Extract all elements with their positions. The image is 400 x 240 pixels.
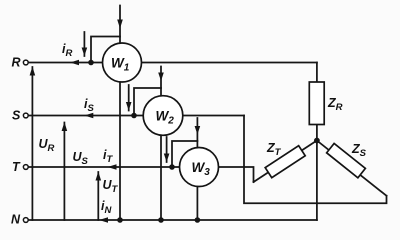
arrowhead W3 top feed [195,126,201,135]
wattmeter W2 circle [143,96,183,136]
arrowhead current arrow W2 node [126,102,132,111]
svg-text:iT: iT [103,148,113,165]
wire W3 top feed with arrow [196,118,198,141]
arrowhead i_N on N line [99,217,108,223]
wire Z_R bottom lead [316,125,318,141]
wattmeter W3 circle [180,148,219,187]
impedance Z_T body [265,146,305,178]
arrowhead current arrow W1 node [82,48,88,57]
svg-text:R: R [12,56,21,70]
wire T line [28,167,253,182]
svg-text:N: N [11,213,21,227]
node at W2 tap [131,113,137,119]
wire star diagonal to Z_S [317,141,387,196]
wire S return to Z_S [244,116,387,204]
impedance Z_S body [327,143,366,177]
svg-text:S: S [12,109,21,123]
current-coil bracket of W2 [134,88,161,116]
terminal S [23,113,28,118]
arrowhead current arrow W3 node [164,154,170,163]
impedance Z_R body [309,82,324,125]
voltage arrow line U_T [97,172,99,220]
wire N line [28,219,317,221]
voltage arrow line U_S [63,123,65,221]
arrowhead U_T up [96,172,102,181]
wire R line [28,62,317,64]
svg-text:ZT: ZT [266,141,282,158]
terminal R [23,60,28,65]
arrowhead W1 top feed [117,20,123,29]
terminal T [23,165,28,170]
arrowhead U_R up [30,67,36,76]
svg-text:ZS: ZS [351,142,367,159]
wire Z_R top lead [316,63,318,83]
wire W2 voltage lead down [160,136,162,221]
node W1 lead on N [117,217,123,223]
current-coil bracket of W1 [91,37,120,63]
svg-text:iN: iN [101,199,112,216]
wire S line [28,115,244,117]
svg-text:ZR: ZR [327,96,343,113]
wire W1 voltage lead down [119,83,121,221]
svg-text:iR: iR [62,42,72,59]
wire W1 top feed with arrow [119,6,121,37]
wire W3 voltage lead down [196,187,198,220]
svg-text:iS: iS [84,97,94,114]
current-coil bracket of W3 [172,141,197,167]
arrowhead i_T on T line [108,164,117,170]
svg-text:T: T [12,160,21,174]
svg-text:UR: UR [39,137,55,154]
node at W1 tap [88,60,94,66]
node at W3 tap [169,164,175,170]
wire W2 top feed with arrow [160,67,162,89]
arrowhead i_S on S line [84,113,93,119]
wire star to N [316,141,318,221]
node star point [314,138,320,144]
voltage arrow line U_R [31,67,33,220]
op-amp? no: wattmeter W1 circle [103,43,142,82]
wire T diagonal to star through Z_T [254,141,317,183]
current direction arrow line at node of W3 [166,137,168,162]
current direction arrow line at node of W2 [128,85,130,111]
current direction arrow line at node of W1 [83,32,85,56]
svg-text:US: US [73,150,89,167]
node W2 lead on N [158,217,164,223]
arrowhead U_S up [62,122,68,131]
terminal N [23,218,28,223]
arrowhead W2 top feed [158,73,164,82]
arrowhead i_R on R line [70,60,79,66]
node W3 lead on N [195,217,201,223]
svg-text:UT: UT [103,178,119,195]
